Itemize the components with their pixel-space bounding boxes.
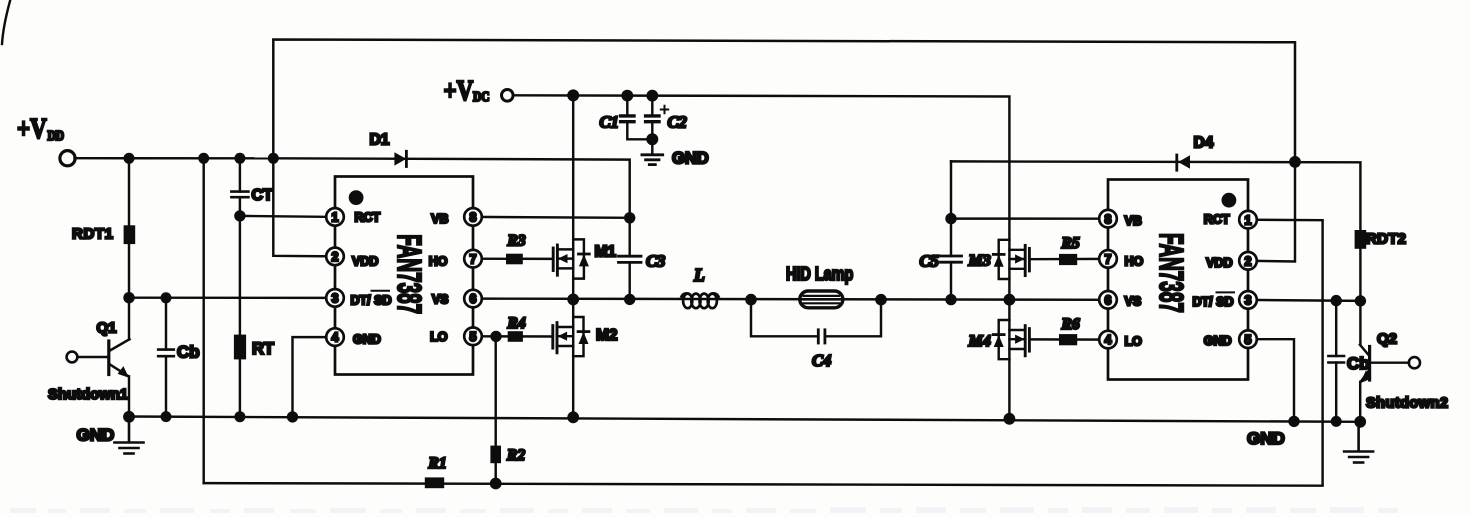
node half-bridge top at +VDC bbox=[567, 89, 579, 101]
wire RCT to pin1 IC1 bbox=[240, 216, 335, 217]
node C3 bottom on VS bbox=[624, 294, 635, 305]
wire HO2 pin7 to M3 gate bbox=[1029, 258, 1108, 261]
resistor R4 bbox=[508, 331, 523, 342]
resistor RT bbox=[234, 335, 246, 360]
node D1 to VB bbox=[624, 212, 635, 223]
svg-text:R6: R6 bbox=[1061, 316, 1080, 333]
terminal +VDC bbox=[502, 90, 514, 102]
svg-text:Cb: Cb bbox=[1347, 354, 1370, 373]
svg-text:6: 6 bbox=[1105, 293, 1112, 307]
svg-text:2: 2 bbox=[1245, 254, 1252, 268]
node Cb1 top bbox=[161, 292, 172, 303]
node Cb1 bottom bbox=[161, 411, 172, 422]
node lamp right bbox=[875, 294, 887, 306]
svg-text:M2: M2 bbox=[596, 327, 618, 344]
svg-text:RDT2: RDT2 bbox=[1366, 231, 1406, 248]
wire M1 M2 main vertical (half-bridge leg) bbox=[572, 95, 574, 417]
wire pin4 GND left to rail bbox=[293, 337, 336, 417]
wire D1 net (+VDD to VB boot) bbox=[273, 158, 629, 218]
svg-text:HID Lamp: HID Lamp bbox=[786, 263, 853, 284]
svg-text:GND: GND bbox=[1247, 429, 1285, 448]
svg-text:3: 3 bbox=[332, 292, 339, 306]
resistor R2 bbox=[490, 446, 501, 464]
svg-text:L: L bbox=[693, 265, 705, 285]
svg-text:DT/ SD: DT/ SD bbox=[351, 294, 392, 308]
svg-text:2: 2 bbox=[332, 250, 339, 264]
node C2 top bbox=[646, 90, 658, 102]
node R2 tee at pin5 bbox=[490, 331, 501, 342]
svg-text:LO: LO bbox=[430, 330, 448, 344]
lamp HID bbox=[800, 291, 843, 308]
svg-text:FAN7387: FAN7387 bbox=[1152, 233, 1190, 313]
svg-text:GND: GND bbox=[672, 150, 709, 168]
IC1 pin 1 bbox=[326, 208, 344, 226]
svg-text:+V: +V bbox=[444, 75, 474, 107]
svg-text:R1: R1 bbox=[428, 455, 447, 472]
node Q1 emitter at GND rail bbox=[123, 411, 135, 423]
diode D1 bbox=[394, 152, 406, 165]
node C1 top bbox=[621, 90, 633, 102]
IC2 pin 4 bbox=[1099, 331, 1117, 349]
wire VB1 from pin8 bbox=[473, 216, 630, 219]
wire VDD to pin2 IC1 (from frame-left vertical) bbox=[273, 158, 335, 256]
node R2 at bottom rail bbox=[490, 478, 502, 490]
svg-text:VB: VB bbox=[431, 212, 448, 226]
ground symbol right bbox=[1344, 422, 1373, 463]
node VS at half-bridge bbox=[567, 294, 579, 306]
svg-text:4: 4 bbox=[332, 331, 339, 345]
scan noise band at page bottom bbox=[10, 507, 1398, 513]
wire VB2 to pin8 bbox=[951, 217, 1108, 220]
svg-text:4: 4 bbox=[1105, 333, 1112, 347]
IC1 pin 3 bbox=[326, 289, 344, 307]
wire LO1 pin5 to M2 gate bbox=[473, 335, 553, 338]
node pin5 GND at rail bbox=[1288, 416, 1299, 427]
IC2 pin 5 bbox=[1239, 330, 1257, 348]
transistor Q1 (NPN) bbox=[78, 298, 130, 417]
svg-text:8: 8 bbox=[1105, 212, 1112, 226]
svg-text:7: 7 bbox=[470, 252, 477, 266]
mosfet M1 bbox=[553, 239, 589, 278]
node D4 at frame right vertical bbox=[1289, 156, 1301, 168]
svg-text:C4: C4 bbox=[812, 351, 831, 370]
svg-text:VS: VS bbox=[432, 293, 449, 307]
IC2 pin 8 bbox=[1099, 210, 1117, 228]
svg-text:Q2: Q2 bbox=[1377, 331, 1397, 348]
IC1 pin 7 bbox=[464, 250, 482, 268]
svg-text:R2: R2 bbox=[506, 447, 525, 464]
resistor R3 bbox=[506, 254, 523, 265]
wire C5 leg (VB boot right) bbox=[950, 161, 952, 256]
svg-text:FAN7387: FAN7387 bbox=[391, 234, 429, 314]
scan artifact top-left pen stroke bbox=[2, 1, 10, 44]
resistor RDT1 bbox=[124, 225, 136, 244]
svg-text:Cb: Cb bbox=[177, 343, 200, 362]
IC2 pin 1 bbox=[1239, 211, 1257, 229]
resistor R1 bbox=[425, 477, 444, 488]
capacitor Cb1 legs bbox=[165, 298, 167, 350]
svg-text:8: 8 bbox=[470, 211, 477, 225]
wire +VDC rail and M3/M4 half-bridge leg bbox=[514, 95, 1010, 419]
node C5 at VB2 bbox=[945, 213, 956, 224]
svg-text:HO: HO bbox=[1125, 255, 1144, 269]
svg-text:Q1: Q1 bbox=[97, 320, 117, 337]
wire HO1 pin7 to M1 gate bbox=[473, 257, 553, 260]
wire LO2 pin4 to M4 gate bbox=[1029, 338, 1108, 341]
svg-text:5: 5 bbox=[1245, 333, 1252, 347]
node pin4 GND at rail bbox=[287, 411, 298, 422]
svg-text:M3: M3 bbox=[968, 253, 991, 270]
capacitor CT plates bbox=[231, 190, 248, 193]
capacitor C3 legs bbox=[628, 218, 630, 256]
resistor R5 bbox=[1059, 254, 1077, 265]
node Q1 collector / DT-SD left bbox=[123, 292, 134, 303]
wire RT leg bbox=[239, 216, 241, 417]
node +VDD at frame left vertical bbox=[268, 153, 279, 164]
capacitor Cb2 legs bbox=[1335, 301, 1337, 356]
capacitor CT legs bbox=[239, 158, 241, 191]
svg-text:C1: C1 bbox=[600, 113, 619, 132]
svg-text:VDD: VDD bbox=[1206, 256, 1232, 270]
svg-text:DD: DD bbox=[48, 128, 65, 143]
svg-text:R4: R4 bbox=[507, 315, 526, 332]
svg-text:3: 3 bbox=[1245, 294, 1252, 308]
wire VDD to pin2 IC2 bbox=[1248, 162, 1295, 262]
svg-text:7: 7 bbox=[1105, 253, 1112, 267]
svg-text:R5: R5 bbox=[1061, 235, 1080, 252]
svg-text:R3: R3 bbox=[507, 233, 526, 250]
IC2 pin 2 bbox=[1239, 252, 1257, 270]
op-amp U1 body: IC FAN7387 left bbox=[335, 177, 473, 375]
svg-text:5: 5 bbox=[470, 330, 477, 344]
svg-text:1: 1 bbox=[332, 211, 339, 225]
wire top frame (+VDD loop over the top) bbox=[273, 40, 1295, 162]
transistor Q2 (NPN mirrored) bbox=[1360, 301, 1409, 422]
svg-text:HO: HO bbox=[429, 255, 448, 269]
IC2 pin 6 bbox=[1099, 291, 1117, 309]
inductor L bbox=[682, 293, 719, 308]
node DT/SD at Q2 collector bbox=[1355, 295, 1366, 306]
svg-text:1: 1 bbox=[1245, 213, 1252, 227]
wire VS rail bbox=[473, 299, 1108, 300]
node C1 C2 junction bbox=[646, 133, 658, 145]
resistor R6 bbox=[1059, 334, 1077, 345]
label C2 plus sign bbox=[661, 106, 668, 113]
svg-text:RCT: RCT bbox=[1204, 213, 1230, 227]
IC1 pin 4 bbox=[326, 328, 344, 346]
svg-text:RT: RT bbox=[252, 340, 274, 358]
IC1 pin 5 bbox=[464, 328, 482, 346]
wire RDT1 leg bbox=[128, 158, 130, 297]
svg-text:Shutdown2: Shutdown2 bbox=[1366, 396, 1448, 412]
svg-text:D1: D1 bbox=[370, 132, 390, 149]
svg-text:M1: M1 bbox=[595, 244, 617, 261]
node CT bottom / RCT tee bbox=[234, 210, 245, 221]
svg-text:DC: DC bbox=[473, 89, 490, 104]
wire D4 net row bbox=[951, 161, 1360, 230]
svg-text:C3: C3 bbox=[646, 252, 665, 271]
wire RDT2 bottom to Q2 collector bbox=[1359, 249, 1361, 301]
mosfet M3 (mirrored) bbox=[993, 240, 1029, 279]
terminal Q2 base (Shutdown2 input) bbox=[1409, 357, 1420, 368]
capacitor C4 plates bbox=[817, 330, 820, 343]
svg-text:VB: VB bbox=[1125, 214, 1142, 228]
node VS at right half-bridge bbox=[1004, 294, 1016, 306]
capacitor C2 (electrolytic) bbox=[646, 96, 659, 153]
capacitor C1 bbox=[621, 96, 653, 140]
svg-text:CT: CT bbox=[252, 187, 274, 204]
wire bottom rail (sync loop) bbox=[204, 220, 1323, 486]
node lamp left bbox=[745, 294, 757, 306]
svg-text:+V: +V bbox=[17, 113, 47, 145]
terminal Q1 base (Shutdown1 input) bbox=[67, 352, 78, 363]
wire R2 leg bbox=[494, 336, 496, 483]
terminal +VDD bbox=[60, 151, 75, 166]
IC2 pin1 indicator dot (RCT) bbox=[1222, 193, 1237, 208]
node RT bottom bbox=[234, 411, 245, 422]
svg-text:GND: GND bbox=[353, 333, 381, 347]
svg-text:Shutdown1: Shutdown1 bbox=[48, 387, 128, 403]
resistor RDT2 bbox=[1355, 230, 1367, 249]
svg-text:LO: LO bbox=[1125, 335, 1143, 349]
node Q2 emitter at GND rail bbox=[1354, 416, 1366, 428]
wire GND rail bbox=[127, 417, 1360, 422]
wire C4 loop bbox=[751, 300, 818, 337]
IC1 pin1 indicator dot (RCT) bbox=[349, 190, 364, 205]
node DT/SD at Cb2 bbox=[1331, 295, 1342, 306]
IC1 pin 6 bbox=[464, 290, 482, 308]
IC2 pin 7 bbox=[1099, 250, 1117, 268]
wire DT/SD right from pin3 bbox=[1248, 300, 1360, 301]
node left loop top bbox=[198, 153, 209, 164]
svg-text:C2: C2 bbox=[668, 113, 687, 132]
wire +VDD rail bbox=[75, 157, 274, 160]
wire pin5 GND right to rail bbox=[1248, 339, 1294, 421]
svg-text:M4: M4 bbox=[968, 333, 991, 350]
capacitor C3 plates bbox=[619, 255, 642, 258]
node M2 source at GND rail bbox=[567, 411, 579, 423]
svg-text:C5: C5 bbox=[920, 252, 939, 271]
wire DT/SD net to pin3 IC1 bbox=[129, 296, 335, 299]
svg-text:RCT: RCT bbox=[355, 211, 381, 225]
svg-text:D4: D4 bbox=[1194, 135, 1214, 152]
svg-text:6: 6 bbox=[470, 292, 477, 306]
capacitor Cb1 plates bbox=[158, 348, 174, 351]
node Cb2 bottom bbox=[1331, 416, 1342, 427]
capacitor C5 plates bbox=[941, 255, 962, 258]
IC2 pin 3 bbox=[1239, 291, 1257, 309]
node RDT1 top bbox=[124, 153, 135, 164]
wire left outer loop vertical (to bottom rail) bbox=[202, 158, 204, 483]
node C5 bottom on VS bbox=[945, 294, 956, 305]
svg-text:GND: GND bbox=[77, 426, 115, 445]
ground symbol at C2 bbox=[642, 155, 663, 165]
mosfet M4 (mirrored) bbox=[993, 320, 1029, 359]
mosfet M2 bbox=[553, 317, 589, 356]
svg-text:DT/ SD: DT/ SD bbox=[1193, 295, 1234, 309]
capacitor Cb2 plates bbox=[1328, 355, 1344, 358]
IC1 pin 2 bbox=[326, 248, 344, 266]
svg-text:GND: GND bbox=[1204, 334, 1232, 348]
node M4 source at GND rail bbox=[1004, 413, 1016, 425]
diode D4 bbox=[1175, 155, 1178, 170]
node CT top bbox=[234, 153, 245, 164]
IC1 pin 8 bbox=[464, 208, 482, 226]
op-amp U2 body: IC FAN7387 right bbox=[1108, 180, 1248, 380]
ground symbol left bbox=[115, 417, 144, 454]
svg-text:VDD: VDD bbox=[352, 255, 378, 269]
svg-text:RDT1: RDT1 bbox=[72, 226, 113, 243]
svg-text:VS: VS bbox=[1125, 295, 1142, 309]
